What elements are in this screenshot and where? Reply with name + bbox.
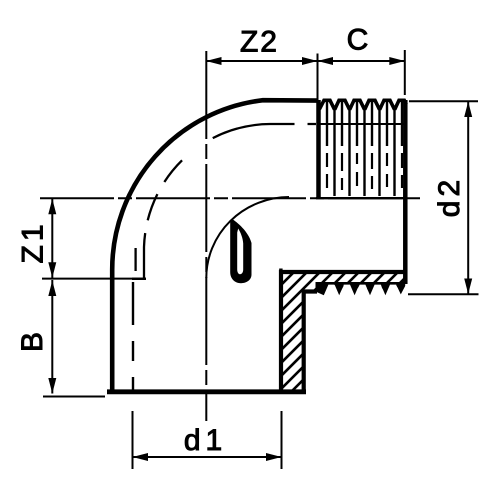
dimension d2 line — [467, 101, 469, 294]
bottom end face — [107, 389, 306, 394]
dimension Z1 line — [51, 199, 53, 279]
sectioned thread profile teeth (filled) — [316, 282, 406, 295]
arrow d1 right — [266, 453, 282, 461]
arrow d1 left — [133, 453, 149, 461]
svg-text:d1: d1 — [184, 424, 227, 457]
svg-text:Z1: Z1 — [17, 220, 50, 263]
arrow B bottom — [48, 378, 56, 394]
right end face of threaded spigot — [403, 100, 408, 284]
sectioned wall outline: bore bottom edge and socket wall — [281, 272, 405, 391]
hidden socket inner wall left (dashed) — [132, 282, 134, 390]
thread crest vertical lines (peaks) — [327, 102, 402, 146]
svg-text:C: C — [347, 24, 369, 57]
arrow Z1 top — [48, 199, 56, 215]
dimension Z2/C line — [206, 60, 405, 62]
thread root vertical lines (valleys) — [335, 109, 395, 196]
extension line spigot end — [404, 50, 406, 95]
centerline vertical (axis of bottom socket outlet) — [205, 51, 207, 421]
arrow C left — [318, 57, 334, 65]
extension line d1 right — [281, 411, 283, 469]
dimension d2 extension top — [409, 100, 478, 102]
arrow Z2 right — [302, 57, 318, 65]
socket stop step — [132, 278, 146, 280]
dimension d1 line — [133, 456, 282, 458]
extension line bottom — [43, 396, 105, 398]
arrow Z2 left — [206, 57, 222, 65]
arrow C right — [389, 57, 405, 65]
svg-text:d2: d2 — [433, 176, 466, 217]
corner stub — [279, 269, 282, 277]
svg-text:B: B — [16, 332, 49, 352]
dimension d2 extension bottom — [408, 293, 479, 295]
svg-text:Z2: Z2 — [240, 26, 279, 59]
arrow B top — [48, 281, 56, 297]
section hatching 45 degree lines — [130, 258, 451, 410]
horizontal bore top line through threads — [318, 123, 404, 125]
dimension B line — [51, 280, 53, 394]
thread start plane edge — [316, 100, 321, 198]
hidden bore inner wall (dashed): vertical part and curve to horizontal bore — [144, 124, 316, 279]
socket chamfer dash — [134, 248, 136, 271]
arrow d2 bottom — [464, 279, 472, 295]
extension line thread start — [317, 54, 319, 100]
waterway inner corner arc — [206, 197, 289, 278]
section boundary line under threads — [316, 197, 406, 199]
extension line mid (socket stop) — [42, 278, 146, 280]
outer body contour: left wall, elbow curve, top line — [112, 100, 318, 392]
arrow Z1 bottom — [48, 262, 56, 278]
thread dashes mid — [327, 153, 402, 190]
thread crest zigzag (top, external view) — [318, 100, 406, 110]
arrow d2 top — [464, 102, 472, 118]
sectioned wall underside: socket wall right edge and shank flat — [304, 292, 317, 392]
inner corner lip (ring edge seen in bore) — [230, 219, 251, 283]
centerline horizontal (axis of threaded outlet) — [40, 197, 420, 199]
extension line d1 left — [132, 411, 134, 469]
